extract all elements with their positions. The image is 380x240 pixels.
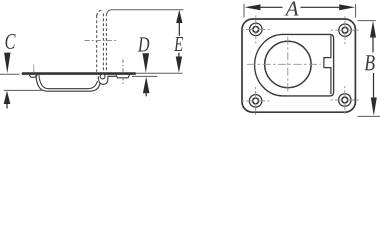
top view: plate outline: [242, 19, 355, 112]
top view: screw hole top-right inner: [342, 27, 348, 33]
dim A left arrow: [245, 4, 261, 10]
dim C upper arrow: [4, 53, 10, 74]
top view: recess pocket outline: [255, 34, 334, 96]
dim E upper shaft: [178, 23, 180, 36]
side view: hinge pin circle: [100, 74, 105, 79]
dim B lower shaft: [373, 73, 375, 98]
dim C lower arrow stem: [6, 104, 8, 109]
top view: screw hole bottom-left crosshair: [242, 87, 270, 115]
side view: raised ring hidden line middle: [102, 14, 104, 72]
dim D lower arrow stem: [145, 93, 147, 96]
top view: screw hole bottom-right outer: [339, 94, 352, 107]
dim D lower arrow: [143, 77, 150, 94]
top view: screw hole bottom-left inner: [253, 98, 259, 104]
top view: screw hole top-left inner: [253, 27, 259, 33]
dim D upper arrow: [143, 53, 150, 72]
dim E lower shaft: [178, 53, 180, 57]
dim C label: [6, 34, 16, 49]
side view: raised ring hidden top arc: [97, 10, 103, 16]
dim E label: [174, 37, 183, 51]
top view: lift ring: [265, 41, 311, 87]
dim A label: [285, 2, 299, 16]
dim A line left: [261, 6, 283, 8]
top view: ring vertical centerline: [287, 37, 289, 93]
side view: ring centerline tick: [85, 40, 117, 42]
top view: screw hole bottom-left outer: [249, 95, 262, 108]
dim C upper extension line: [0, 73, 20, 75]
top view: screw hole top-right outer: [339, 24, 352, 37]
top view: recess inner right edge with latch notch: [324, 35, 331, 94]
dim E top extension line: [107, 10, 184, 14]
dim D lower extension line (plate bottom): [132, 75, 158, 77]
side view: raised ring hidden line right: [105, 14, 107, 72]
top view: screw hole top-left crosshair: [242, 15, 270, 43]
side view: raised ring hidden line left: [96, 16, 98, 72]
side view: latch pocket centerline: [122, 60, 124, 87]
top view: screw hole bottom-right crosshair: [331, 86, 359, 114]
side view: mounting plate (section): [22, 72, 137, 75]
side view: latch keeper pocket: [116, 75, 130, 78]
side view: hinge bracket under pin: [98, 76, 116, 84]
dim B upper shaft: [372, 38, 374, 53]
dim B bottom extension line: [358, 115, 380, 117]
dim B upper arrow: [370, 21, 376, 38]
dim A line right: [301, 6, 340, 8]
dim B label: [365, 55, 375, 70]
top view: screw hole top-right crosshair: [331, 16, 359, 44]
dim E upper arrow: [176, 10, 182, 23]
side view: recess cup outer wall: [36, 75, 100, 91]
top view: screw hole bottom-right inner: [342, 97, 348, 103]
dim D label: [138, 37, 150, 51]
dim C lower extension line: [4, 89, 45, 91]
dim A right extension line: [355, 4, 357, 18]
side view: left screw countersink: [29, 75, 37, 77]
dim D upper extension line (plate top): [135, 72, 183, 74]
top view: ring horizontal centerline: [247, 63, 321, 65]
side view: recess cup inner wall: [39, 75, 98, 89]
dim B top extension line: [358, 20, 376, 22]
dim E lower arrow: [176, 57, 182, 73]
dim A left extension line: [243, 4, 245, 18]
dim B lower arrow: [371, 98, 377, 116]
side view: left screw centerline: [33, 65, 35, 73]
dim A right arrow: [339, 4, 355, 10]
top view: screw hole top-left outer: [250, 23, 262, 36]
dim C lower arrow: [4, 91, 11, 104]
